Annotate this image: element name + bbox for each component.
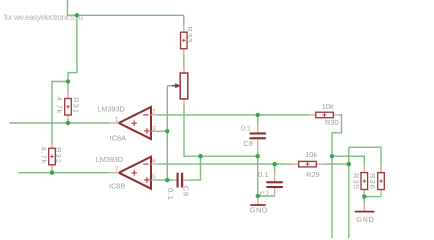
wire: line B vertical to bottom edge [348, 147, 350, 238]
wire: IC8B output to left edge [19, 172, 110, 174]
junction dot R31/out1 [66, 121, 70, 125]
junction dot R32/out2 [50, 171, 54, 175]
svg-text:LM393D: LM393D [96, 155, 123, 164]
wire: R29 right to line B [324, 163, 349, 165]
junction dot pin3/wiper [165, 129, 169, 133]
wire: IC8B pin5 to wiper net [157, 179, 173, 181]
junction dot C9 riser [198, 154, 202, 158]
wire: pot wiper [167, 85, 172, 87]
resistor R35 [361, 166, 368, 194]
svg-text:LM393D: LM393D [97, 104, 124, 113]
wire: pot bottom to gnd horizontal [184, 105, 258, 156]
resistor R29 [291, 161, 325, 167]
resistor R30 [310, 112, 339, 118]
svg-text:IC8A: IC8A [110, 133, 127, 142]
wire: rail drop to R33 [183, 15, 185, 25]
junction dot at R31 top branch [66, 79, 70, 83]
wire: IC8A pin3 to wiper net [157, 130, 167, 132]
svg-text:10k: 10k [322, 102, 334, 111]
svg-text:C9: C9 [182, 186, 191, 197]
wire: down to R31 [67, 82, 69, 93]
svg-text:C8: C8 [243, 139, 252, 148]
resistor R32 [49, 144, 56, 169]
svg-text:0.1: 0.1 [258, 170, 268, 179]
ground GND left [250, 196, 265, 205]
svg-text:R33: R33 [185, 27, 194, 44]
wire: R36 bottom to node [364, 196, 381, 198]
wire: C7 bottom to gnd node [258, 195, 275, 197]
wire: R35 bottom node [363, 194, 365, 202]
junction dot top rail [75, 13, 79, 17]
wire: rail branch down with jog [68, 15, 77, 81]
op-amp IC8A [109, 107, 157, 139]
svg-text:0.1: 0.1 [166, 188, 175, 200]
svg-text:for we.easyelectronics.ru: for we.easyelectronics.ru [4, 13, 82, 22]
junction dot line B / R29 [347, 162, 351, 166]
svg-text:2: 2 [152, 108, 156, 115]
junction dot gnd node [256, 194, 260, 198]
potentiometer (trimmer) [172, 66, 188, 105]
svg-text:4.7k: 4.7k [40, 147, 49, 165]
junction dot C8 top [256, 113, 260, 117]
svg-text:5: 5 [152, 174, 156, 181]
ground GND right [355, 202, 375, 212]
wire: wiper net vertical [166, 86, 168, 180]
resistor R31 [65, 92, 72, 119]
svg-text:GND: GND [356, 215, 374, 224]
junction dot C7 top [272, 162, 276, 166]
junction dot line A [330, 154, 334, 158]
svg-text:R36: R36 [368, 173, 377, 190]
capacitor C9 [173, 173, 187, 188]
junction dot C8 bottom [256, 154, 260, 158]
svg-text:10k: 10k [305, 150, 317, 159]
resistor R33 [181, 26, 188, 56]
wire: line B top over to R36 [349, 147, 381, 166]
op-amp IC8B [109, 157, 157, 189]
wire: R31 bottom to output net [67, 119, 69, 123]
wire: IC8A pin2 to R30 [157, 114, 310, 116]
wire: R33 to pot [183, 55, 185, 66]
svg-text:R32: R32 [54, 147, 63, 164]
capacitor C7 [266, 164, 282, 196]
wire: IC8B pin6 to R29 [157, 163, 290, 165]
svg-text:0.1: 0.1 [241, 124, 251, 133]
svg-text:7: 7 [115, 166, 119, 173]
wire: line A to R35 top [332, 156, 364, 166]
svg-text:IC8B: IC8B [109, 182, 126, 191]
capacitor C8 [250, 115, 266, 156]
resistor R36 [378, 166, 385, 197]
wire: IC8A output to left edge [10, 122, 110, 124]
svg-text:R29: R29 [306, 170, 320, 179]
svg-text:GND: GND [250, 205, 268, 214]
wire: R30 right jog down to line A [332, 115, 342, 238]
svg-text:R35: R35 [351, 173, 360, 190]
svg-text:C7: C7 [260, 190, 269, 199]
junction dot pin5/wiper/C9 [165, 178, 169, 182]
svg-text:3: 3 [152, 126, 156, 133]
svg-text:R30: R30 [325, 118, 339, 127]
svg-text:R31: R31 [72, 97, 81, 114]
svg-text:1: 1 [115, 117, 119, 124]
wire: C8 bottom down to gnd wire [257, 156, 259, 196]
junction dot R35/R36 bottom [362, 194, 366, 198]
svg-text:4.7k: 4.7k [55, 97, 64, 115]
wire: R32 bottom to output net 2 [51, 169, 53, 173]
wire: C9 right up to gnd net [187, 156, 201, 180]
svg-text:6: 6 [152, 158, 156, 165]
wire: branch to R32 column [52, 82, 68, 145]
wire: top rail from top edge [68, 0, 184, 15]
